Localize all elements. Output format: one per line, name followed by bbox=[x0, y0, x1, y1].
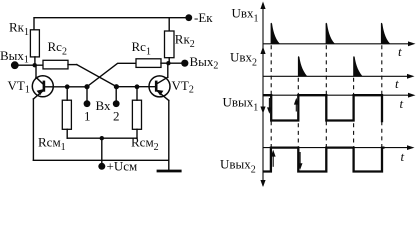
wire t axis row1 bbox=[263, 43, 412, 45]
wire dashed timing line T3 bbox=[325, 45, 327, 147]
waveform Uvyh2 square bbox=[263, 148, 385, 172]
label Vyh2 bbox=[190, 54, 219, 72]
wire input 1 stub bbox=[86, 87, 88, 104]
node input terminal 2 bbox=[113, 100, 120, 107]
node axis arrow down row4 bbox=[260, 180, 265, 187]
label input pin 2 bbox=[113, 109, 120, 124]
wire Usm stem bbox=[101, 138, 103, 166]
resistor Rc1 bbox=[136, 59, 161, 68]
node arrow up at edge T2 row3 bbox=[294, 98, 299, 112]
node -Ek terminal dot bbox=[185, 14, 192, 21]
pulse spike row2 a bbox=[298, 56, 307, 76]
label Uvyh2 bbox=[220, 157, 256, 176]
label Vyh1 bbox=[0, 48, 29, 66]
wire Rk1 bottom lead bbox=[34, 57, 36, 65]
node junction Rk1/collector bbox=[33, 63, 37, 67]
wire t axis row2 bbox=[263, 75, 411, 77]
svg-text:t: t bbox=[395, 76, 399, 91]
wire t axis row4 bbox=[263, 147, 411, 149]
waveform Uvyh1 square bbox=[263, 95, 382, 122]
node input terminal 1 bbox=[84, 100, 91, 107]
label Rk2 bbox=[175, 32, 195, 51]
wire ground stem bbox=[168, 160, 170, 170]
wire Rsm2 bottom lead bbox=[136, 129, 138, 138]
label t row3 bbox=[400, 96, 404, 111]
wire bias tie line bbox=[67, 137, 137, 139]
pulse spike row1 c bbox=[381, 23, 390, 44]
label Rc1 bbox=[132, 39, 151, 58]
node axis arrow up row1 bbox=[260, 2, 265, 10]
node junction Usm bbox=[100, 136, 104, 140]
ground bbox=[158, 170, 180, 173]
transistor VT2 bbox=[149, 63, 170, 100]
node arrow down at edge T2 row4 bbox=[298, 152, 303, 170]
resistor Rk2 bbox=[165, 31, 175, 58]
node arrow up at edge T1 row4 bbox=[271, 150, 276, 167]
label VT2 bbox=[172, 78, 194, 96]
label Uvyh1 bbox=[223, 95, 259, 114]
wire Rk2 bottom lead bbox=[168, 58, 170, 64]
label VT1 bbox=[8, 78, 30, 96]
label Vh (input) bbox=[96, 98, 111, 113]
label input pin 1 bbox=[84, 109, 91, 124]
pulse spike row1 a bbox=[271, 23, 280, 44]
wire VT1 emitter down bbox=[32, 99, 34, 160]
svg-text:-Ек: -Ек bbox=[194, 10, 213, 25]
node axis arrow up row2 bbox=[260, 47, 265, 55]
node Vyh2 terminal dot bbox=[181, 60, 188, 67]
svg-text:2: 2 bbox=[113, 109, 120, 124]
wire cross diagonal B (VT1 base to Rc1) bbox=[87, 63, 136, 86]
node junction Rk2/collector bbox=[166, 61, 170, 65]
svg-text:t: t bbox=[401, 149, 405, 164]
svg-text:Вх: Вх bbox=[96, 98, 111, 113]
label +Usm bbox=[107, 159, 138, 174]
label t row1 bbox=[398, 44, 402, 59]
svg-text:t: t bbox=[400, 96, 404, 111]
node axis arrow down row3 bbox=[260, 107, 265, 114]
resistor Rc2 bbox=[43, 60, 68, 69]
wire Rsm2 top lead bbox=[136, 87, 138, 100]
wire dashed timing line T2 bbox=[297, 78, 299, 148]
label Uvh2 bbox=[230, 50, 257, 69]
node junction Vh2 bbox=[114, 84, 119, 89]
label Rsm1 bbox=[38, 135, 66, 154]
wire dashed timing line T4 bbox=[353, 78, 355, 148]
node junction Rsm2 top bbox=[135, 84, 140, 89]
label Uvh1 bbox=[232, 6, 259, 25]
wire Rsm1 bottom lead bbox=[66, 129, 68, 138]
resistor Rsm1 bbox=[62, 100, 71, 129]
resistor Rk1 bbox=[30, 30, 39, 57]
wire VT2 emitter down bbox=[168, 101, 170, 161]
wire Rk2 top lead from rail bbox=[168, 18, 170, 31]
wire bottom emitter rail bbox=[33, 159, 168, 161]
label -Ek bbox=[194, 10, 213, 25]
resistor Rsm2 bbox=[132, 100, 141, 129]
wire top supply rail bbox=[34, 18, 189, 30]
wire Vyh1 row bbox=[15, 64, 43, 66]
pulse spike row1 b bbox=[326, 23, 335, 44]
label Rsm2 bbox=[131, 135, 159, 154]
transistor VT1 bbox=[32, 65, 53, 99]
svg-text:1: 1 bbox=[84, 109, 91, 124]
wire input 2 stub bbox=[115, 87, 117, 104]
label t row4 bbox=[401, 149, 405, 164]
wire VT2 base row bbox=[117, 86, 157, 88]
wire Rsm1 top lead bbox=[66, 87, 68, 100]
node Vyh1 terminal dot bbox=[11, 61, 19, 69]
node +Usm terminal dot bbox=[98, 163, 105, 170]
label Rc2 bbox=[48, 39, 67, 58]
wire Rc2 right lead bbox=[68, 64, 77, 66]
svg-text:t: t bbox=[398, 44, 402, 59]
pulse spike row2 b bbox=[353, 56, 362, 76]
wire dashed timing line T1 bbox=[270, 45, 272, 147]
wire dashed timing line T5 bbox=[381, 45, 383, 147]
wire Vyh2 row bbox=[161, 62, 185, 64]
wire t axis row3 bbox=[263, 94, 412, 96]
wire cross diagonal A (Rc2 to VT2 base) bbox=[77, 65, 117, 87]
node arrow down at edge T1 row3 bbox=[267, 98, 272, 114]
node junction Vh1 bbox=[84, 84, 89, 89]
wire VT1 base row bbox=[44, 86, 87, 88]
label t row2 bbox=[395, 76, 399, 91]
wire U axis vertical (shared column) bbox=[262, 3, 264, 186]
node junction Rsm1 top bbox=[65, 84, 70, 89]
label Rk1 bbox=[9, 20, 29, 39]
